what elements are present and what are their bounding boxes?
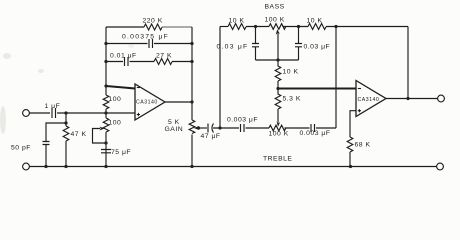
feedback branch: resistor 220K bbox=[106, 26, 144, 28]
node bbox=[104, 42, 107, 45]
node bbox=[276, 58, 279, 61]
wire right feedback rail bbox=[191, 27, 193, 120]
wire non-inverting input to 68K bbox=[350, 111, 356, 137]
wire feedback down bbox=[407, 27, 409, 99]
capacitor 0.03uF (right) bbox=[295, 27, 302, 61]
node bbox=[190, 42, 193, 45]
wiper wire of 100 pot bbox=[93, 129, 107, 144]
node bbox=[190, 60, 193, 63]
node bbox=[44, 165, 47, 168]
op-amp U2 CA3140 bbox=[356, 81, 386, 117]
capacitor 0.003uF (left) bbox=[241, 124, 270, 132]
node treble/gain junction bbox=[218, 126, 221, 129]
wire inverting input op-amp U2 (thick) bbox=[278, 88, 356, 90]
svg-text:100: 100 bbox=[109, 96, 122, 103]
capacitor 47uF bbox=[208, 124, 220, 133]
svg-text:0.00375 μF: 0.00375 μF bbox=[122, 34, 169, 41]
capacitor 0.003uF (right) bbox=[311, 124, 336, 132]
wire bass left rail bbox=[219, 27, 221, 129]
node bbox=[104, 60, 107, 63]
resistor 68K bbox=[347, 137, 353, 167]
resistor 10K (right) bbox=[308, 24, 326, 30]
svg-text:10 K: 10 K bbox=[307, 18, 323, 25]
svg-text:0.003 μF: 0.003 μF bbox=[227, 117, 258, 124]
svg-text:100 K: 100 K bbox=[269, 131, 289, 138]
node bbox=[64, 165, 67, 168]
bass pot wiper arrow bbox=[277, 34, 279, 61]
svg-text:5.3 K: 5.3 K bbox=[283, 96, 301, 103]
feedback branch: capacitor 0.01uF + resistor 27K bbox=[106, 57, 154, 66]
potentiometer 100K TREBLE bbox=[269, 125, 286, 131]
svg-text:BASS: BASS bbox=[265, 4, 285, 11]
svg-text:5 K: 5 K bbox=[168, 119, 180, 126]
node output feedback junction bbox=[406, 97, 409, 100]
svg-text:47 μF: 47 μF bbox=[201, 133, 221, 140]
wire inverting input op-amp U1 (thick) bbox=[106, 86, 135, 89]
svg-text:CA3140: CA3140 bbox=[358, 97, 380, 103]
svg-text:10 K: 10 K bbox=[283, 69, 299, 76]
resistor 10K (vertical) bbox=[275, 60, 281, 89]
potentiometer 100 (lower) bbox=[103, 118, 109, 167]
svg-text:TREBLE: TREBLE bbox=[263, 156, 292, 163]
node bbox=[104, 165, 107, 168]
svg-text:100: 100 bbox=[109, 120, 122, 127]
wire bbox=[65, 113, 67, 126]
wire treble line bbox=[220, 127, 239, 129]
svg-text:47 K: 47 K bbox=[71, 131, 87, 138]
svg-text:220 K: 220 K bbox=[143, 18, 163, 25]
svg-text:0.03 μF: 0.03 μF bbox=[304, 44, 331, 51]
wire bbox=[30, 112, 51, 114]
svg-text:CA3140: CA3140 bbox=[136, 100, 158, 106]
wire op-amp U2 output bbox=[386, 98, 438, 100]
node bbox=[276, 87, 279, 90]
wire treble-right rail up bbox=[335, 27, 337, 129]
svg-text:68 K: 68 K bbox=[355, 142, 371, 149]
node bbox=[64, 121, 67, 124]
resistor 47K bbox=[63, 126, 69, 167]
feedback branch: capacitor 0.00375uF bbox=[106, 39, 192, 48]
ground rail (bottom) bbox=[30, 166, 437, 168]
svg-text:75 μF: 75 μF bbox=[111, 149, 131, 156]
node bbox=[104, 111, 107, 114]
svg-text:1 μF: 1 μF bbox=[45, 103, 61, 110]
resistor 5.3K bbox=[275, 89, 281, 123]
output terminal (bottom right) bbox=[437, 163, 444, 170]
op-amp U1 CA3140 bbox=[135, 84, 165, 120]
wire bbox=[57, 112, 135, 114]
wire left feedback rail bbox=[105, 27, 107, 95]
wiper arrow onto treble pot bbox=[277, 121, 281, 126]
input terminal (top left) bbox=[23, 110, 30, 117]
output terminal (top right) bbox=[438, 95, 445, 102]
svg-text:50 pF: 50 pF bbox=[11, 145, 31, 152]
node bbox=[190, 100, 193, 103]
wire op-amp U1 output bbox=[165, 101, 192, 103]
node bbox=[349, 165, 352, 168]
node bbox=[104, 84, 107, 87]
capacitor 50pF bbox=[43, 142, 50, 167]
node bbox=[334, 25, 337, 28]
wiper of 5K pot bbox=[198, 127, 207, 129]
input terminal (bottom left) bbox=[23, 163, 30, 170]
svg-text:0.01 μF: 0.01 μF bbox=[110, 53, 137, 60]
node bbox=[254, 25, 257, 28]
node bbox=[190, 165, 193, 168]
svg-text:100 K: 100 K bbox=[265, 17, 285, 24]
svg-text:0.003 μF: 0.003 μF bbox=[300, 130, 331, 137]
svg-text:27 K: 27 K bbox=[156, 53, 172, 60]
node input junction bbox=[64, 111, 67, 114]
bass top line: resistor 10K (left) bbox=[220, 26, 228, 28]
potentiometer 100K BASS bbox=[269, 24, 286, 30]
capacitor 1uF bbox=[52, 108, 56, 118]
svg-text:10 K: 10 K bbox=[229, 18, 245, 25]
potentiometer 5K GAIN bbox=[189, 120, 195, 167]
node bbox=[104, 141, 107, 144]
resistor 100 (upper) bbox=[103, 95, 109, 118]
svg-text:GAIN: GAIN bbox=[165, 126, 184, 133]
capacitor 75uF bbox=[101, 150, 111, 153]
capacitor 0.03uF (left) bbox=[252, 27, 259, 61]
node bbox=[297, 25, 300, 28]
svg-text:0.03 μF: 0.03 μF bbox=[217, 44, 249, 51]
wire bass bottom line bbox=[256, 59, 299, 61]
wire to 50pF bbox=[46, 123, 66, 141]
